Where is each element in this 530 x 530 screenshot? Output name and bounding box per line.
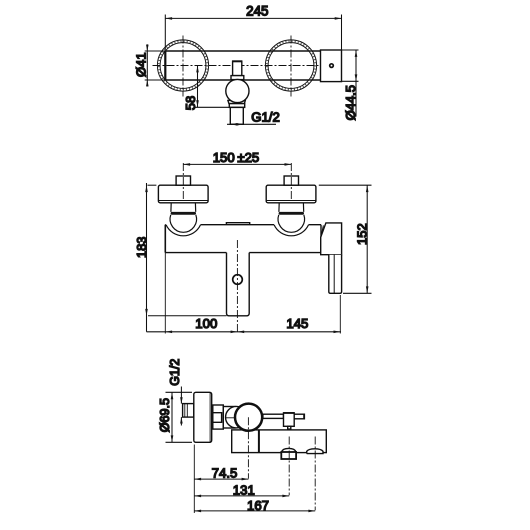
top view body tube	[165, 51, 320, 80]
escutcheon (side)	[194, 392, 212, 442]
left escutcheon circle (top view)	[157, 40, 208, 91]
svg-text:Ø41: Ø41	[133, 52, 148, 77]
dimension G1/2 (top view)	[227, 123, 276, 126]
dimension 167	[194, 510, 315, 513]
dimension 183	[145, 183, 226, 332]
dimension G1/2 (side)	[180, 387, 183, 426]
shower outlet centerline	[314, 437, 316, 511]
svg-text:152: 152	[354, 223, 369, 245]
diverter outlet stub (top view)	[230, 107, 243, 124]
diverter nut trapezoid (behind ball)	[228, 100, 245, 103]
dimension 131	[194, 495, 289, 498]
front body	[165, 225, 321, 253]
right union centerline	[290, 163, 292, 201]
dimension Ø41	[145, 44, 166, 86]
right escutcheon circle (top view)	[265, 40, 316, 91]
top view tube centerline	[153, 65, 330, 67]
svg-text:245: 245	[246, 3, 268, 18]
svg-text:131: 131	[233, 482, 255, 497]
dimension Ø69.5	[166, 392, 193, 442]
dimension 74.5	[194, 478, 248, 481]
spout outlet hat (side)	[281, 448, 296, 459]
eccentric ball crescent	[226, 406, 248, 428]
svg-text:145: 145	[286, 316, 308, 331]
spout (front)	[227, 253, 250, 316]
body top bump	[226, 223, 249, 225]
right union nut	[279, 212, 304, 215]
shower outlet dome (side)	[307, 449, 323, 454]
dimension 152	[319, 185, 372, 293]
svg-text:100: 100	[195, 316, 217, 331]
lever arm (side)	[263, 414, 284, 418]
right escutcheon plate (front)	[266, 185, 316, 203]
left escutcheon vertical centerline	[182, 36, 184, 97]
svg-text:150 ±25: 150 ±25	[213, 150, 260, 165]
svg-text:183: 183	[134, 237, 149, 258]
diverter nut band	[229, 104, 244, 108]
dimension 150±25	[183, 163, 291, 166]
left union cone	[171, 203, 196, 212]
dimension 100 / 145 baseline	[147, 253, 342, 334]
diverter knob circle on spout	[233, 275, 243, 285]
handle base (front)	[321, 223, 342, 255]
eccentric body (side)	[223, 407, 235, 429]
diverter stem flange	[231, 76, 244, 80]
lever knob (side)	[284, 413, 295, 427]
right end block (top view)	[321, 50, 342, 82]
left supply stub (front)	[176, 176, 190, 185]
left union centerline	[182, 163, 184, 201]
union nut (side)	[213, 405, 224, 429]
dimension 245 line	[165, 15, 341, 52]
screw dot in end block	[330, 64, 334, 68]
svg-text:74.5: 74.5	[212, 466, 238, 481]
svg-text:Ø69.5: Ø69.5	[158, 398, 172, 432]
svg-text:Ø44.5: Ø44.5	[343, 85, 358, 120]
left escutcheon plate (front)	[158, 185, 208, 203]
dimension Ø44.5	[342, 50, 359, 117]
bottom dims extension line	[193, 445, 195, 514]
right escutcheon vertical centerline	[290, 36, 292, 97]
lever tip (side)	[294, 414, 304, 420]
right union cone	[279, 203, 304, 212]
svg-text:167: 167	[247, 498, 269, 513]
svg-text:G1/2: G1/2	[168, 359, 182, 386]
lever knob stem	[288, 426, 291, 429]
svg-text:G1/2: G1/2	[251, 109, 280, 124]
svg-text:58: 58	[183, 96, 198, 110]
right supply stub (front)	[284, 176, 298, 185]
diverter stem (top view)	[232, 61, 242, 75]
wall supply stub (side)	[183, 404, 194, 418]
dimension 58	[194, 66, 229, 108]
right union fillet	[274, 210, 308, 236]
side body housing	[232, 430, 327, 453]
left union fillet	[166, 210, 200, 236]
spout centerline	[236, 240, 238, 333]
spout outlet centerline	[288, 437, 290, 496]
left union nut	[171, 212, 196, 215]
valve circle centerline	[247, 417, 249, 478]
valve body circle (side)	[235, 404, 262, 431]
handle lever (front)	[329, 255, 342, 294]
diverter ball (top view)	[226, 79, 249, 102]
